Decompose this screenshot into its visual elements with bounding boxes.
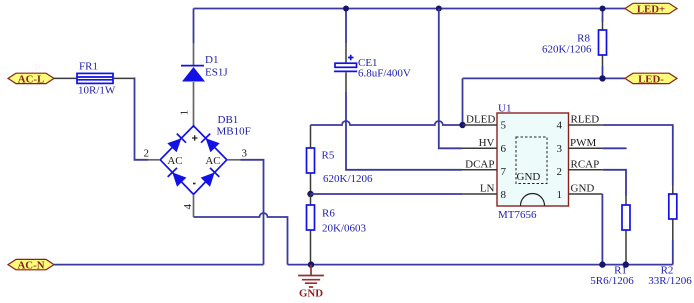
- svg-text:LN: LN: [480, 183, 495, 195]
- svg-text:R5: R5: [322, 150, 335, 162]
- svg-text:2: 2: [557, 166, 563, 178]
- pin 4 RLED of U1: [569, 124, 603, 126]
- svg-text:MT7656: MT7656: [498, 209, 537, 221]
- port LED+: [625, 3, 677, 13]
- svg-text:LED+: LED+: [637, 4, 665, 16]
- svg-text:R6: R6: [322, 208, 335, 220]
- svg-text:AC: AC: [205, 155, 220, 167]
- pin 3 PWM of U1: [569, 147, 603, 149]
- svg-text:PWM: PWM: [570, 137, 597, 149]
- wire: U1 GND pin down to rail: [601, 194, 603, 265]
- wire: R5 top to DLED (hops over CE1 and HV columns): [311, 121, 463, 125]
- svg-text:620K/1206: 620K/1206: [323, 173, 373, 185]
- junction on top rail at HV column: [436, 6, 442, 12]
- svg-text:HV: HV: [479, 137, 495, 149]
- wire: AC-L to FR1: [54, 77, 77, 79]
- svg-text:5R6/1206: 5R6/1206: [590, 275, 634, 287]
- svg-text:8: 8: [501, 189, 507, 201]
- junction R8 top at rail: [600, 6, 606, 12]
- svg-text:DB1: DB1: [218, 114, 239, 126]
- capacitor CE1: [345, 9, 347, 44]
- svg-text:6.8uF/400V: 6.8uF/400V: [358, 68, 411, 80]
- svg-text:FR1: FR1: [79, 61, 98, 73]
- wire: DB1 pin3 to AC-N line: [241, 160, 264, 265]
- svg-text:U1: U1: [498, 103, 511, 115]
- pin 3 of DB1: [227, 159, 241, 161]
- resistor R2: [672, 185, 674, 240]
- svg-text:AC-L: AC-L: [18, 73, 44, 85]
- svg-text:GND: GND: [571, 183, 595, 195]
- junction at DLED: [459, 122, 465, 128]
- svg-text:1: 1: [557, 189, 563, 201]
- svg-text:7: 7: [501, 166, 507, 178]
- pin 2 RCAP of U1: [569, 169, 603, 171]
- svg-text:1: 1: [179, 110, 191, 116]
- IC U1 MT7656: [497, 113, 569, 206]
- pin 1 GND of U1: [569, 193, 603, 195]
- svg-text:D1: D1: [205, 54, 218, 66]
- svg-text:5: 5: [501, 120, 507, 132]
- junction R8 bottom at LED- row: [599, 75, 605, 81]
- svg-text:GND: GND: [299, 288, 323, 300]
- svg-text:4: 4: [182, 204, 194, 210]
- wire: LED- column down to DLED junction: [462, 78, 464, 125]
- svg-text:3: 3: [242, 148, 248, 160]
- svg-text:DLED: DLED: [466, 114, 495, 126]
- wire: LED- row: [463, 77, 626, 79]
- wire: FR1 to DB1 pin2: [113, 77, 133, 79]
- svg-text:4: 4: [557, 120, 563, 132]
- svg-text:LED-: LED-: [638, 73, 664, 85]
- junction R5 bottom / LN: [307, 191, 313, 197]
- pin 2 of DB1: [148, 159, 160, 161]
- wire: PWM stub: [602, 147, 626, 149]
- pin 8 LN of U1: [462, 193, 497, 195]
- svg-text:GND: GND: [517, 171, 541, 183]
- svg-text:6: 6: [501, 143, 507, 155]
- ground symbol GND: [298, 265, 324, 287]
- svg-text:2: 2: [144, 148, 150, 160]
- svg-text:ES1J: ES1J: [205, 67, 228, 79]
- junction on top rail at CE1: [343, 6, 349, 12]
- svg-text:DCAP: DCAP: [465, 158, 494, 170]
- svg-text:620K/1206: 620K/1206: [542, 44, 592, 56]
- wire: bottom ground rail: [288, 264, 673, 266]
- resistor R5: [310, 125, 312, 194]
- resistor R8: [602, 9, 604, 23]
- wire: HV column from top rail: [439, 9, 462, 149]
- svg-text:10R/1W: 10R/1W: [78, 85, 116, 97]
- pin 6 HV of U1: [462, 147, 497, 149]
- resistor R1: [625, 196, 627, 262]
- svg-text:3: 3: [557, 143, 563, 155]
- wire: RLED to R2 column: [603, 125, 673, 185]
- junction U1 GND at rail: [599, 261, 605, 267]
- svg-text:33R/1206: 33R/1206: [648, 275, 692, 287]
- svg-text:MB10F: MB10F: [217, 126, 251, 138]
- junction R1 bottom at rail: [623, 261, 629, 267]
- pin 5 DLED of U1: [463, 124, 498, 126]
- wire: D1 column from top rail: [193, 9, 195, 44]
- diode D1: [193, 43, 195, 126]
- port LED-: [625, 73, 677, 83]
- junction R6 bottom / ground rail: [308, 261, 314, 267]
- wire: RCAP to R1 column: [603, 170, 626, 196]
- wire: top V+ rail: [194, 8, 626, 10]
- svg-text:AC: AC: [167, 155, 182, 167]
- wire: LN row: [311, 193, 463, 195]
- port AC-N: [8, 259, 54, 269]
- wire: DB1 pin4 to ground rail (hop over AC-N column): [194, 213, 288, 265]
- resistor FR1: [77, 73, 113, 83]
- pin 7 DCAP of U1: [462, 169, 497, 171]
- svg-text:RCAP: RCAP: [571, 158, 600, 170]
- svg-text:RLED: RLED: [571, 114, 600, 126]
- svg-text:AC-N: AC-N: [18, 260, 45, 272]
- port AC-L: [8, 73, 54, 83]
- pin 4 of DB1: [193, 194, 195, 217]
- bridge DB1: [160, 126, 227, 195]
- resistor R6: [310, 194, 312, 262]
- svg-text:20K/0603: 20K/0603: [322, 223, 367, 235]
- wire: AC-N to DB1 pin3 column: [54, 264, 264, 266]
